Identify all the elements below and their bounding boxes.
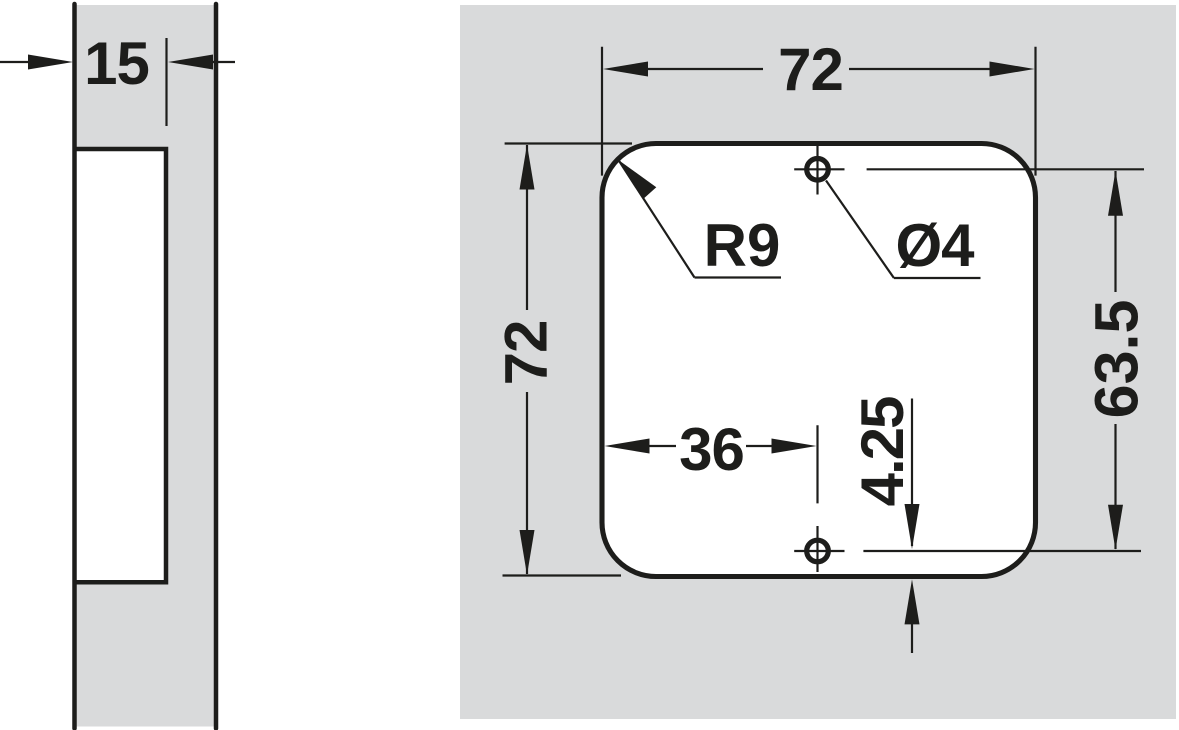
top hole: vertical center line <box>816 146 818 195</box>
dimension 36: left line segment <box>648 445 676 447</box>
bottom hole circle <box>807 540 829 562</box>
svg-text:Ø4: Ø4 <box>895 212 975 279</box>
dimension 72 left: bottom extension line <box>503 574 622 576</box>
dimension 63.5: upper line segment <box>1114 171 1116 292</box>
dimension 72 top: right arrowhead <box>990 62 1035 77</box>
dimension 36: left arrowhead <box>605 439 650 454</box>
dimension 15: right tail line <box>212 61 235 63</box>
dimension 63.5: bottom extension line <box>863 550 1141 552</box>
leader R9: arrowhead at corner arc <box>619 160 657 199</box>
leader R9: horizontal underline <box>695 276 782 278</box>
left view: recess outline <box>75 149 167 582</box>
leader Ø4: diagonal line <box>826 181 894 279</box>
dimension 4.25: tail line below plate <box>911 622 913 653</box>
top hole: horizontal center line <box>794 168 844 170</box>
dimension 72 top: right extension line <box>1034 47 1036 176</box>
dimension 15: right arrowhead <box>168 55 213 70</box>
dimension 72 left: up arrowhead <box>520 145 535 190</box>
dimension 36: right line segment <box>746 445 773 447</box>
dimension 72 top: left line segment <box>646 68 763 70</box>
right view: mounting surface gray panel <box>460 5 1176 719</box>
top hole circle <box>807 159 829 181</box>
dimension 63.5: up arrowhead <box>1108 171 1123 216</box>
dimension 63.5: top extension line <box>867 168 1144 170</box>
dimension 72 left: lower line segment <box>526 392 528 574</box>
left view: panel inner face line <box>214 4 219 729</box>
dimension 72 top: left arrowhead <box>603 62 648 77</box>
dimension 4.25: vertical line <box>911 399 913 547</box>
left view: recess white cutout <box>75 149 167 582</box>
svg-text:R9: R9 <box>704 212 781 279</box>
dimension 72 top: left extension line <box>601 47 603 176</box>
dimension 72 left: top extension line <box>505 142 632 144</box>
dimension 15: left arrowhead <box>28 55 73 70</box>
right view: rounded square plate outline R9 <box>602 144 1036 577</box>
dimension 72 left: upper line segment <box>526 145 528 310</box>
svg-text:63.5: 63.5 <box>1083 300 1151 419</box>
svg-text:72: 72 <box>493 321 560 386</box>
dimension 72 top: right line segment <box>849 68 990 70</box>
svg-text:4.25: 4.25 <box>849 397 916 506</box>
dimension 4.25: down arrowhead <box>905 504 920 549</box>
svg-text:36: 36 <box>679 416 744 483</box>
bottom hole: vertical center line above <box>816 425 818 503</box>
dimension 4.25: up arrowhead below plate <box>905 579 920 624</box>
svg-text:72: 72 <box>778 36 843 103</box>
bottom hole: horizontal cross line <box>794 550 844 552</box>
leader Ø4: horizontal underline <box>894 277 981 279</box>
dimension 15: extension line <box>165 38 167 126</box>
dimension 36: right arrowhead <box>772 439 817 454</box>
bottom hole: vertical cross line <box>816 526 818 572</box>
dimension 63.5: lower line segment <box>1114 424 1116 549</box>
left view: panel outer face line <box>72 4 77 729</box>
dimension 63.5: down arrowhead <box>1108 505 1123 550</box>
dimension 72 left: down arrowhead <box>520 530 535 575</box>
svg-text:15: 15 <box>84 30 149 97</box>
left view: panel cross-section gray body <box>75 5 217 727</box>
dimension 15: left tail line <box>0 61 29 63</box>
leader R9: diagonal line <box>619 160 695 278</box>
